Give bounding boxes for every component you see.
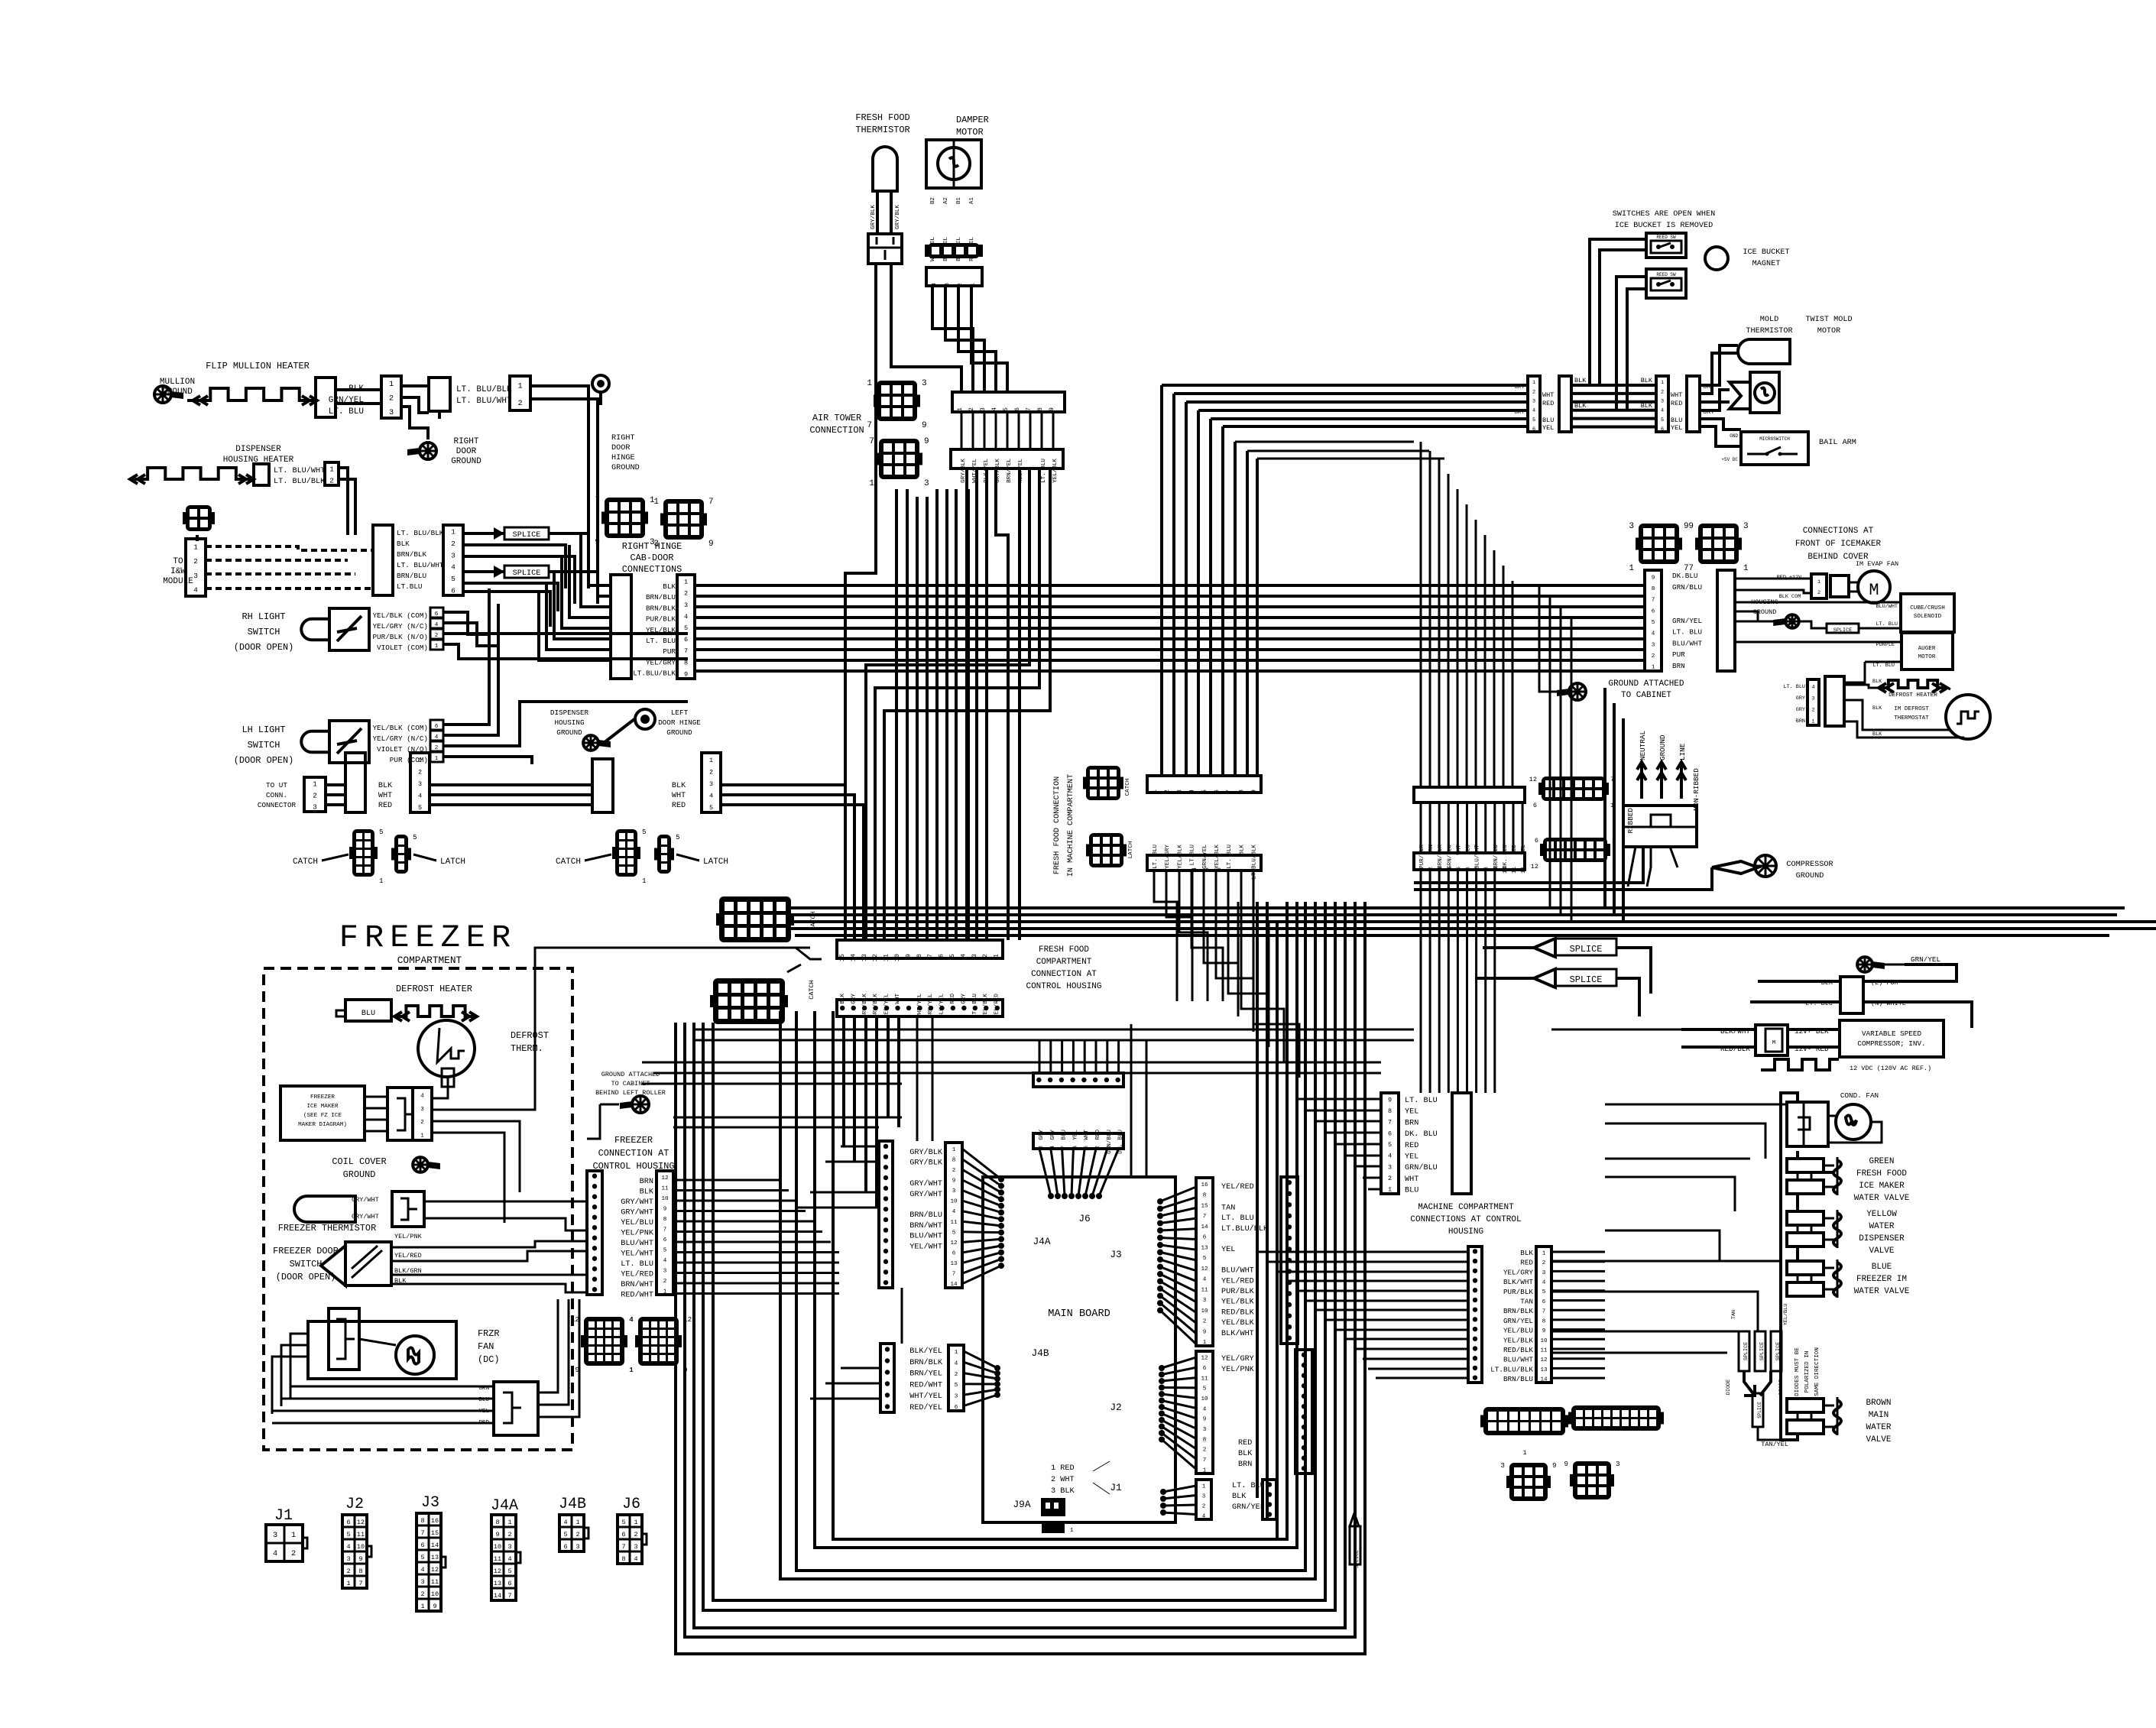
svg-text:SPLICE: SPLICE	[1570, 974, 1603, 985]
svg-text:7: 7	[1225, 789, 1233, 793]
damper motor circle	[938, 140, 970, 188]
svg-text:MOTOR: MOTOR	[1817, 327, 1841, 336]
splice S4	[1534, 969, 1616, 987]
svg-text:4: 4	[420, 1094, 424, 1100]
svg-text:BEHIND LEFT ROLLER: BEHIND LEFT ROLLER	[595, 1089, 666, 1097]
svg-text:BLU: BLU	[1405, 1187, 1418, 1195]
svg-text:J4A: J4A	[1033, 1236, 1050, 1247]
svg-text:1: 1	[420, 1133, 424, 1139]
fz lower connector	[494, 1382, 538, 1435]
svg-text:GRN/YEL: GRN/YEL	[1232, 1503, 1265, 1512]
svg-text:GROUND: GROUND	[343, 1169, 376, 1180]
tan label rotated	[1731, 1304, 1789, 1326]
svg-text:9: 9	[495, 1531, 499, 1538]
svg-text:+5V DC: +5V DC	[1721, 457, 1738, 462]
svg-text:3: 3	[507, 1543, 511, 1551]
svg-text:CONNECTIONS AT: CONNECTIONS AT	[1803, 527, 1874, 536]
latch connector 2	[654, 833, 680, 874]
svg-text:LT. BLU: LT. BLU	[1876, 621, 1898, 627]
svg-text:11: 11	[1540, 1348, 1548, 1354]
latch label 2	[676, 854, 728, 867]
svg-text:BLU: BLU	[361, 1010, 375, 1018]
svg-text:4: 4	[1202, 1514, 1206, 1520]
svg-text:7: 7	[952, 1272, 956, 1278]
fz defrost therm label	[511, 1030, 549, 1054]
svg-text:4: 4	[932, 283, 938, 287]
svg-text:M: M	[1869, 581, 1879, 600]
svg-text:SPLICE: SPLICE	[1354, 1550, 1360, 1568]
svg-text:BLK: BLK	[672, 782, 686, 790]
svg-text:6: 6	[663, 1237, 667, 1243]
svg-text:MACHINE COMPARTMENT: MACHINE COMPARTMENT	[1418, 1203, 1514, 1212]
svg-text:RED: RED	[1671, 400, 1682, 407]
icemaker labels A right	[1542, 391, 1554, 432]
svg-text:TAN/YEL: TAN/YEL	[1761, 1441, 1788, 1448]
wires inverter	[1750, 965, 1972, 1028]
svg-text:WHT: WHT	[672, 792, 686, 800]
svg-text:MOTOR: MOTOR	[956, 127, 984, 138]
svg-text:2: 2	[1661, 389, 1664, 395]
evap fan motor	[1849, 571, 1890, 603]
svg-text:2: 2	[291, 1550, 296, 1558]
svg-text:3: 3	[924, 479, 929, 488]
svg-text:6: 6	[1013, 407, 1021, 411]
mullion ground lug	[154, 378, 195, 403]
svg-text:2: 2	[346, 1568, 350, 1575]
svg-text:BLK COM: BLK COM	[1779, 594, 1801, 600]
wires CON4 to right then down	[339, 468, 355, 535]
svg-text:3: 3	[313, 803, 317, 812]
fz defrost therm circle	[418, 1020, 475, 1077]
fz connection dotstrip	[587, 1171, 602, 1295]
svg-text:11: 11	[431, 1578, 439, 1586]
svg-text:DIODE: DIODE	[1778, 1379, 1785, 1395]
svg-text:2: 2	[517, 400, 522, 408]
svg-text:IM EVAP FAN: IM EVAP FAN	[1856, 560, 1898, 568]
LH switch wire labels	[372, 724, 428, 764]
svg-text:RIBBED: RIBBED	[1626, 808, 1635, 834]
svg-text:HINGE: HINGE	[611, 454, 635, 462]
svg-text:LT. BLU: LT. BLU	[1405, 1097, 1438, 1105]
svg-text:12: 12	[1531, 863, 1538, 870]
svg-text:BRN/YEL: BRN/YEL	[928, 994, 934, 1018]
svg-text:LT. BLU: LT. BLU	[1041, 459, 1047, 483]
svg-text:A1: A1	[969, 197, 975, 205]
svg-text:GROUND ATTACHED: GROUND ATTACHED	[601, 1071, 660, 1078]
svg-text:3: 3	[684, 601, 688, 609]
green ff icemaker water valve	[1787, 1157, 1910, 1203]
svg-text:J3: J3	[1110, 1249, 1121, 1260]
svg-text:1: 1	[663, 1289, 667, 1295]
icemaker front grid B	[1688, 522, 1749, 573]
svg-text:GND: GND	[1730, 433, 1738, 439]
svg-text:I&W: I&W	[170, 567, 186, 576]
im defrost mid connector	[1825, 676, 1844, 726]
svg-text:3: 3	[193, 572, 198, 580]
svg-text:3: 3	[346, 1555, 350, 1563]
bottom 3x3 grid A	[1500, 1461, 1556, 1501]
svg-text:4: 4	[990, 407, 998, 411]
cube/crush solenoid box	[1901, 594, 1954, 632]
compressor ground lug	[1712, 855, 1776, 877]
svg-text:J6: J6	[1078, 1213, 1090, 1224]
svg-text:LT. BLU/BLK: LT. BLU/BLK	[274, 477, 326, 486]
svg-text:9: 9	[1048, 407, 1055, 411]
svg-text:YEL/BLK: YEL/BLK	[1221, 1318, 1255, 1328]
J1 pinout	[266, 1525, 307, 1561]
tan/yel label	[1761, 1441, 1788, 1448]
svg-text:GROUND: GROUND	[1796, 872, 1824, 880]
bottom nested loop bundle	[676, 902, 1365, 1654]
svg-text:11: 11	[1201, 1287, 1208, 1293]
svg-text:A2: A2	[943, 197, 949, 205]
frzr fan motor	[396, 1336, 434, 1374]
svg-text:7: 7	[1062, 1146, 1068, 1149]
svg-text:FRESH FOOD: FRESH FOOD	[1856, 1169, 1907, 1178]
wire heater to connector	[187, 390, 381, 404]
svg-text:BAIL ARM: BAIL ARM	[1819, 439, 1856, 447]
svg-text:5: 5	[952, 1230, 956, 1236]
svg-text:8: 8	[1237, 789, 1245, 793]
main board outline	[983, 1177, 1175, 1522]
svg-text:LT. BLU: LT. BLU	[972, 994, 978, 1018]
icemaker mid tall connector	[1717, 570, 1735, 671]
dispenser heater element	[130, 468, 254, 484]
horizontals ff to board	[642, 1062, 932, 1084]
damper connector strip	[926, 267, 982, 287]
labels BLK WHT RED left	[378, 782, 393, 810]
svg-text:9: 9	[924, 437, 929, 446]
svg-text:HOUSING: HOUSING	[1448, 1227, 1483, 1237]
wires rows into strip A	[1162, 385, 1528, 426]
svg-text:7: 7	[1475, 867, 1481, 870]
wires RH switch to right	[443, 612, 688, 659]
svg-text:BLK: BLK	[1872, 679, 1882, 685]
wires icemaker to wedge	[1700, 390, 1730, 410]
svg-text:1: 1	[420, 1603, 424, 1610]
svg-text:LH LIGHT: LH LIGHT	[242, 725, 285, 735]
svg-text:4: 4	[629, 1315, 634, 1324]
svg-text:SWITCH: SWITCH	[248, 627, 280, 637]
thermistor leads	[877, 191, 891, 234]
svg-text:WHT: WHT	[1405, 1175, 1418, 1184]
svg-text:M: M	[1772, 1040, 1776, 1046]
svg-text:TO: TO	[173, 557, 183, 566]
svg-text:YEL/GRY: YEL/GRY	[1503, 1268, 1533, 1276]
svg-text:TAN: TAN	[1221, 1204, 1235, 1212]
svg-text:4: 4	[346, 1543, 350, 1551]
svg-text:BLK/YEL: BLK/YEL	[939, 994, 945, 1018]
svg-text:5: 5	[418, 804, 422, 812]
svg-text:RED/YEL: RED/YEL	[884, 994, 890, 1018]
verticals icemaker to 12pin	[1421, 442, 1512, 787]
svg-text:FREEZER: FREEZER	[339, 919, 517, 956]
fz dark connector B	[629, 1315, 692, 1374]
svg-text:RED: RED	[1238, 1439, 1252, 1448]
ff 9pin connector top	[1147, 776, 1261, 793]
svg-text:BRN: BRN	[1672, 662, 1685, 670]
fz thermistor labels	[352, 1196, 379, 1221]
svg-text:1: 1	[575, 1519, 579, 1526]
blue freezer im water valve	[1787, 1260, 1910, 1298]
svg-text:2: 2	[420, 1120, 424, 1126]
svg-text:MULLION: MULLION	[160, 378, 195, 387]
svg-text:3: 3	[1388, 1163, 1392, 1171]
grid connector 3x3 B	[653, 498, 713, 549]
svg-text:DISPENSER: DISPENSER	[1859, 1234, 1905, 1243]
12V interface box	[1756, 1025, 1788, 1055]
svg-text:SPLICE: SPLICE	[1570, 944, 1603, 955]
svg-text:1: 1	[1151, 789, 1159, 793]
svg-text:MOTOR: MOTOR	[1918, 654, 1936, 660]
svg-text:J2: J2	[1110, 1402, 1121, 1413]
svg-text:YEL: YEL	[1671, 424, 1682, 432]
svg-text:BRN: BRN	[640, 1178, 653, 1186]
svg-text:14: 14	[431, 1542, 439, 1549]
svg-text:1: 1	[1629, 564, 1634, 573]
J3 fan wires	[1157, 1187, 1196, 1344]
svg-text:B1: B1	[956, 197, 962, 205]
svg-text:7: 7	[684, 647, 688, 655]
svg-text:4: 4	[955, 1361, 958, 1367]
ice bucket magnet	[1705, 247, 1790, 270]
svg-text:2: 2	[709, 768, 713, 776]
catch label 1	[293, 854, 349, 867]
svg-text:7: 7	[708, 498, 714, 507]
svg-text:7: 7	[621, 1543, 625, 1551]
J6 pinout label	[622, 1496, 640, 1513]
svg-text:GROUND ATTACHED: GROUND ATTACHED	[1608, 679, 1684, 689]
svg-text:4: 4	[959, 954, 967, 958]
J6 fan wires	[1039, 1149, 1119, 1199]
svg-text:1: 1	[1118, 1146, 1124, 1149]
brown main water valve	[1787, 1397, 1892, 1444]
svg-text:1: 1	[435, 756, 439, 762]
dispenser housing ground label	[550, 708, 589, 737]
svg-text:12: 12	[494, 1568, 501, 1575]
svg-text:DEFROST: DEFROST	[511, 1030, 549, 1041]
svg-text:BLU/WHT: BLU/WHT	[1503, 1356, 1533, 1364]
svg-text:MAIN: MAIN	[1869, 1411, 1889, 1420]
non-ribbed label	[1692, 768, 1700, 811]
svg-text:1: 1	[1661, 380, 1664, 386]
svg-text:YEL/BLK: YEL/BLK	[1221, 1298, 1255, 1307]
svg-text:12: 12	[1201, 1266, 1208, 1272]
svg-text:12: 12	[357, 1519, 365, 1526]
svg-text:1: 1	[379, 877, 384, 885]
J6 topstrip	[1033, 1073, 1123, 1087]
icemaker 9pin labels	[1672, 572, 1702, 670]
svg-text:COIL COVER: COIL COVER	[332, 1156, 386, 1167]
svg-text:LT.BLU: LT.BLU	[397, 582, 422, 591]
svg-text:BROWN: BROWN	[1866, 1399, 1891, 1408]
svg-text:YEL/WHT: YEL/WHT	[621, 1250, 653, 1259]
freezer connection title	[592, 1135, 674, 1172]
svg-text:7: 7	[869, 437, 874, 446]
J2 wire labels	[1221, 1354, 1255, 1469]
icemaker front grid A	[1629, 522, 1688, 573]
svg-text:BRN/YEL: BRN/YEL	[1007, 459, 1013, 483]
svg-text:15: 15	[431, 1529, 439, 1537]
ff 9pin connector bottom	[1147, 855, 1261, 871]
verticals below ff dotstrip	[844, 1016, 899, 1208]
svg-text:BLU: BLU	[1542, 417, 1554, 424]
J6 wire labels rotated	[1039, 1130, 1124, 1154]
svg-text:13: 13	[1540, 1367, 1548, 1373]
svg-text:1: 1	[1743, 564, 1749, 573]
svg-text:3: 3	[955, 1394, 958, 1400]
svg-text:5: 5	[1456, 867, 1462, 870]
left door hinge ground label	[658, 708, 701, 737]
svg-text:DIODE: DIODE	[1726, 1379, 1732, 1395]
svg-text:9: 9	[952, 1178, 956, 1185]
svg-text:7: 7	[1203, 1214, 1207, 1220]
switches-open note	[1613, 210, 1716, 230]
fz connection labels	[621, 1178, 654, 1300]
svg-text:2: 2	[451, 540, 456, 548]
svg-text:BRN/BLK: BRN/BLK	[397, 550, 426, 559]
J6 pinout	[618, 1515, 647, 1564]
svg-text:5: 5	[379, 828, 384, 836]
svg-text:YEL: YEL	[1221, 1246, 1235, 1254]
svg-text:10: 10	[661, 1196, 669, 1202]
svg-text:8: 8	[1388, 1107, 1392, 1115]
svg-text:GRY: GRY	[1796, 695, 1805, 702]
svg-text:5: 5	[709, 804, 713, 812]
svg-text:DISPENSER: DISPENSER	[550, 708, 589, 717]
svg-text:2: 2	[507, 1531, 511, 1538]
svg-text:CAB-DOOR: CAB-DOOR	[630, 553, 673, 563]
svg-text:8: 8	[952, 1157, 956, 1163]
svg-text:4: 4	[1652, 631, 1655, 637]
svg-text:6: 6	[938, 954, 945, 958]
svg-text:11: 11	[1512, 867, 1518, 874]
thermistor wires down	[845, 264, 961, 940]
wires 12V	[1681, 1029, 1840, 1047]
svg-text:6: 6	[1532, 426, 1535, 433]
svg-text:9: 9	[1493, 867, 1499, 870]
svg-text:2: 2	[418, 768, 422, 776]
svg-text:9: 9	[1203, 1329, 1207, 1335]
freezer door switch label	[273, 1246, 339, 1282]
svg-text:FRESH FOOD CONNECTION: FRESH FOOD CONNECTION	[1053, 776, 1062, 874]
svg-text:BLK: BLK	[1641, 402, 1653, 410]
svg-text:6: 6	[684, 636, 688, 644]
fz small fuse	[442, 1068, 454, 1087]
J4B label	[1031, 1347, 1049, 1359]
svg-text:THERM.: THERM.	[511, 1043, 543, 1054]
svg-text:2: 2	[435, 633, 439, 639]
svg-text:DOOR: DOOR	[456, 447, 477, 456]
fz fan box	[308, 1321, 456, 1379]
svg-text:AUGER: AUGER	[1918, 646, 1936, 652]
svg-text:3: 3	[1203, 1298, 1207, 1304]
svg-text:BLK: BLK	[640, 1188, 654, 1197]
svg-text:8: 8	[358, 1568, 362, 1575]
J1 wire labels	[1232, 1482, 1265, 1512]
wires thermistor right	[424, 1201, 587, 1230]
svg-text:10: 10	[1201, 1308, 1208, 1315]
svg-text:3: 3	[1811, 696, 1814, 702]
svg-text:2: 2	[420, 1590, 424, 1598]
svg-text:DEFROST HEATER: DEFROST HEATER	[1889, 692, 1937, 699]
svg-text:LATCH: LATCH	[703, 858, 728, 867]
bottom 20pin dark connector	[1568, 1405, 1664, 1431]
inverter connector	[1840, 977, 1863, 1013]
svg-text:YEL/WHT: YEL/WHT	[909, 1242, 942, 1251]
svg-text:YEL/RED: YEL/RED	[994, 994, 1000, 1018]
svg-text:CONNECTIONS AT CONTROL: CONNECTIONS AT CONTROL	[1410, 1215, 1521, 1224]
svg-text:WHT: WHT	[378, 792, 392, 800]
svg-text:BLK: BLK	[1872, 705, 1882, 712]
svg-text:YEL/BLU: YEL/BLU	[1503, 1327, 1533, 1335]
svg-text:YEL/RED: YEL/RED	[394, 1252, 422, 1260]
svg-text:7: 7	[1025, 407, 1033, 411]
svg-text:5: 5	[1201, 789, 1208, 793]
cabinet ground lug 2	[595, 1071, 666, 1113]
svg-text:6: 6	[1203, 1366, 1207, 1372]
svg-text:1: 1	[418, 757, 422, 764]
splice S5 vertical	[1350, 1513, 1360, 1568]
svg-text:1: 1	[1419, 867, 1425, 870]
svg-text:CONNECTION: CONNECTION	[809, 425, 864, 436]
freezer title	[339, 919, 517, 966]
svg-text:LT.BLU/BLK: LT.BLU/BLK	[1490, 1365, 1533, 1373]
svg-text:GRN/YEL: GRN/YEL	[1672, 617, 1702, 625]
svg-text:SWITCHES ARE OPEN WHEN: SWITCHES ARE OPEN WHEN	[1613, 210, 1716, 219]
J1 numstrip	[1196, 1480, 1211, 1520]
mc 12pin verticals	[1421, 802, 1522, 853]
fz defrost heater label	[396, 984, 472, 994]
svg-text:1: 1	[1522, 1449, 1526, 1457]
svg-text:4: 4	[1542, 1280, 1546, 1286]
svg-text:11: 11	[661, 1185, 669, 1191]
svg-text:MAIN BOARD: MAIN BOARD	[1048, 1308, 1110, 1320]
evap fan connector	[1811, 574, 1849, 598]
svg-text:BLU/WHT: BLU/WHT	[909, 1232, 942, 1241]
J2 numstrip	[1196, 1351, 1213, 1474]
svg-text:YEL/BLU: YEL/BLU	[1783, 1304, 1789, 1326]
mc 14pin dotstrip	[1468, 1247, 1482, 1383]
dispenser housing ground lug	[583, 735, 611, 751]
J2 pinout	[342, 1515, 371, 1588]
svg-text:2: 2	[958, 283, 964, 287]
mc 14pin labels	[1490, 1249, 1533, 1383]
J3 wire labels	[1221, 1182, 1269, 1338]
svg-text:YEL/BLK: YEL/BLK	[646, 626, 676, 634]
svg-text:11: 11	[883, 954, 890, 961]
svg-text:4: 4	[507, 1555, 511, 1563]
wires across to lower door connector	[430, 785, 592, 805]
svg-text:WHT/YEL: WHT/YEL	[909, 1392, 942, 1401]
svg-text:4: 4	[193, 586, 198, 595]
svg-text:5: 5	[663, 1247, 667, 1253]
svg-text:SWITCH: SWITCH	[290, 1259, 323, 1269]
ff 9pin wires down	[1154, 870, 1299, 1078]
svg-text:GRY/WHT: GRY/WHT	[909, 1190, 942, 1199]
12vdc square wave	[1761, 1059, 1931, 1072]
svg-text:LATCH: LATCH	[809, 911, 817, 931]
svg-text:DISPENSER: DISPENSER	[235, 445, 281, 454]
svg-text:THERMOSTAT: THERMOSTAT	[1894, 715, 1929, 721]
right door hinge ground label	[611, 434, 640, 472]
svg-text:5: 5	[1652, 620, 1655, 626]
svg-text:8: 8	[1484, 867, 1490, 870]
wires rows extra right	[1235, 442, 1444, 459]
svg-text:SPLICE: SPLICE	[513, 531, 541, 540]
svg-text:2: 2	[981, 954, 989, 958]
svg-text:BLK: BLK	[1232, 1493, 1247, 1501]
